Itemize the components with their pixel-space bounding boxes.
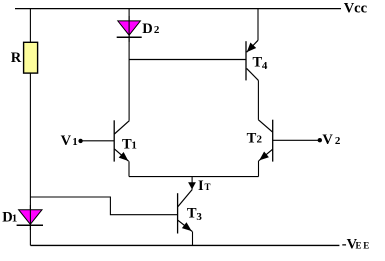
diode D2 bbox=[117, 16, 142, 42]
wire T4 collector to T2 collector bbox=[257, 80, 259, 119]
svg-text:Vcc: Vcc bbox=[344, 1, 368, 17]
bottom rail -VEE bbox=[30, 244, 339, 246]
transistor T2 (NPN, base on right) bbox=[258, 120, 272, 177]
svg-text:V2: V2 bbox=[322, 132, 340, 148]
wire V1 terminal to T1 base bbox=[81, 140, 114, 142]
top rail Vcc bbox=[15, 8, 341, 10]
wire Vcc through D2 down to T1 collector bbox=[128, 9, 130, 121]
transistor T4 (PNP) bbox=[246, 9, 258, 81]
node V1 terminal dot bbox=[78, 139, 82, 143]
svg-text:V1: V1 bbox=[61, 133, 78, 149]
node V2 terminal dot bbox=[318, 138, 322, 142]
svg-text:T2: T2 bbox=[247, 131, 263, 147]
svg-text:D1: D1 bbox=[2, 210, 17, 226]
svg-text:T1: T1 bbox=[122, 136, 137, 152]
transistor T3 (NPN, base on left) bbox=[178, 190, 193, 246]
svg-text:D2: D2 bbox=[142, 21, 160, 37]
wire left rail to T3 base bbox=[30, 197, 177, 215]
diode D1 bbox=[17, 205, 43, 230]
svg-text:R: R bbox=[11, 50, 22, 66]
wire T2 base to V2 terminal bbox=[273, 139, 320, 141]
wire left vertical rail (Vcc through R and D1 to -VEE) bbox=[29, 9, 31, 246]
wire tail-current bus (T1 emitter to T2 emitter) bbox=[129, 176, 259, 178]
wire D2 node to T4 base bbox=[129, 59, 246, 61]
transistor T1 (NPN, base on left) bbox=[114, 120, 129, 176]
wire tail bus to T3 collector with current arrow bbox=[191, 177, 193, 190]
resistor R bbox=[24, 42, 38, 73]
